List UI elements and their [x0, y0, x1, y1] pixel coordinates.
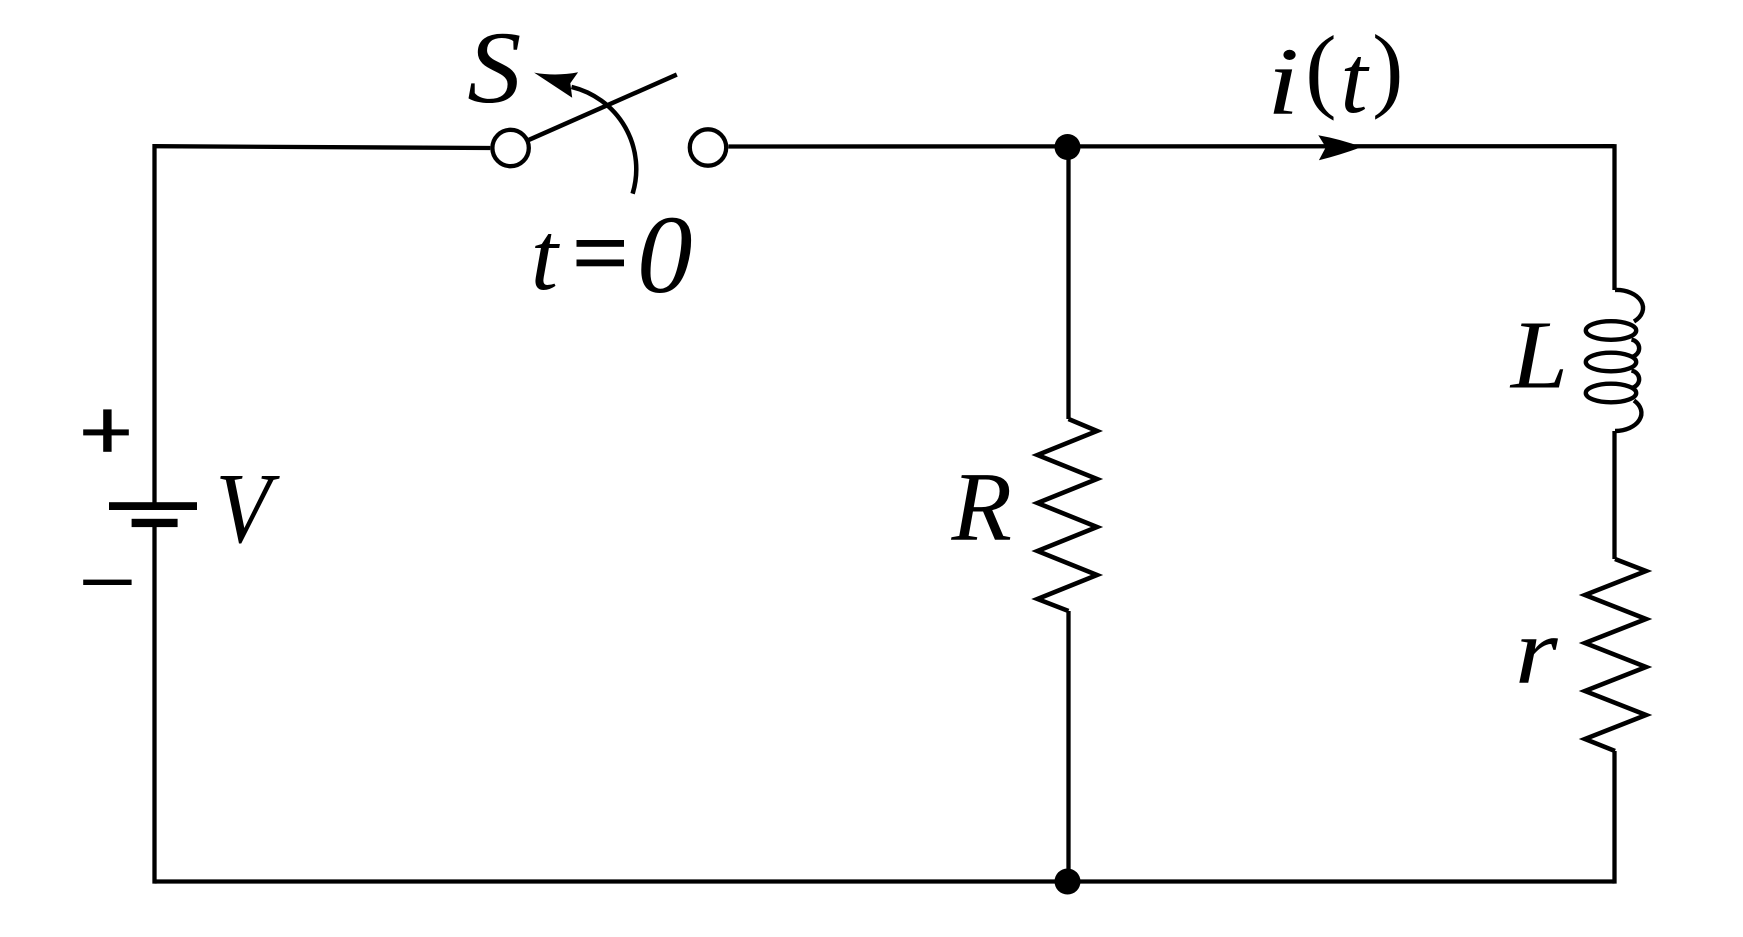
node junction dot top	[1055, 134, 1081, 160]
wire right vertical lower	[1612, 751, 1616, 884]
wire left vertical upper	[152, 144, 156, 507]
svg-text:i: i	[1267, 28, 1299, 134]
resistor R	[1038, 419, 1098, 611]
svg-text:t: t	[1340, 26, 1370, 134]
resistor r	[1585, 559, 1646, 751]
battery minus sign	[83, 580, 131, 585]
switch S blade	[528, 75, 677, 141]
label t=0 : equals sign	[577, 240, 625, 247]
svg-text:(: (	[1305, 18, 1336, 122]
wire right vertical upper	[1612, 144, 1616, 290]
wire middle vertical upper	[1066, 146, 1070, 419]
wire middle vertical lower	[1066, 611, 1070, 882]
switch S terminal circle right	[690, 129, 726, 165]
svg-text:L: L	[1509, 301, 1568, 409]
svg-text:): )	[1372, 17, 1403, 121]
battery V short plate	[132, 519, 178, 527]
node junction dot bottom	[1055, 869, 1081, 895]
battery plus sign	[83, 429, 129, 435]
wire bottom	[155, 879, 1615, 883]
svg-text:r: r	[1515, 600, 1559, 704]
svg-text:0: 0	[637, 194, 693, 317]
wire left vertical lower	[152, 523, 156, 884]
current arrow i(t)	[1318, 135, 1362, 160]
wire right vertical middle	[1612, 431, 1616, 559]
svg-text:t: t	[531, 203, 561, 311]
wire top-right	[728, 144, 1614, 149]
wire top-left	[155, 146, 491, 148]
switch motion arc	[572, 87, 637, 194]
switch motion arrowhead	[534, 72, 578, 98]
switch S terminal circle left	[492, 130, 528, 166]
svg-text:R: R	[951, 453, 1012, 562]
svg-text:S: S	[467, 10, 521, 124]
svg-text:V: V	[216, 452, 280, 564]
battery V long plate	[109, 502, 197, 510]
inductor L coil	[1586, 290, 1643, 431]
